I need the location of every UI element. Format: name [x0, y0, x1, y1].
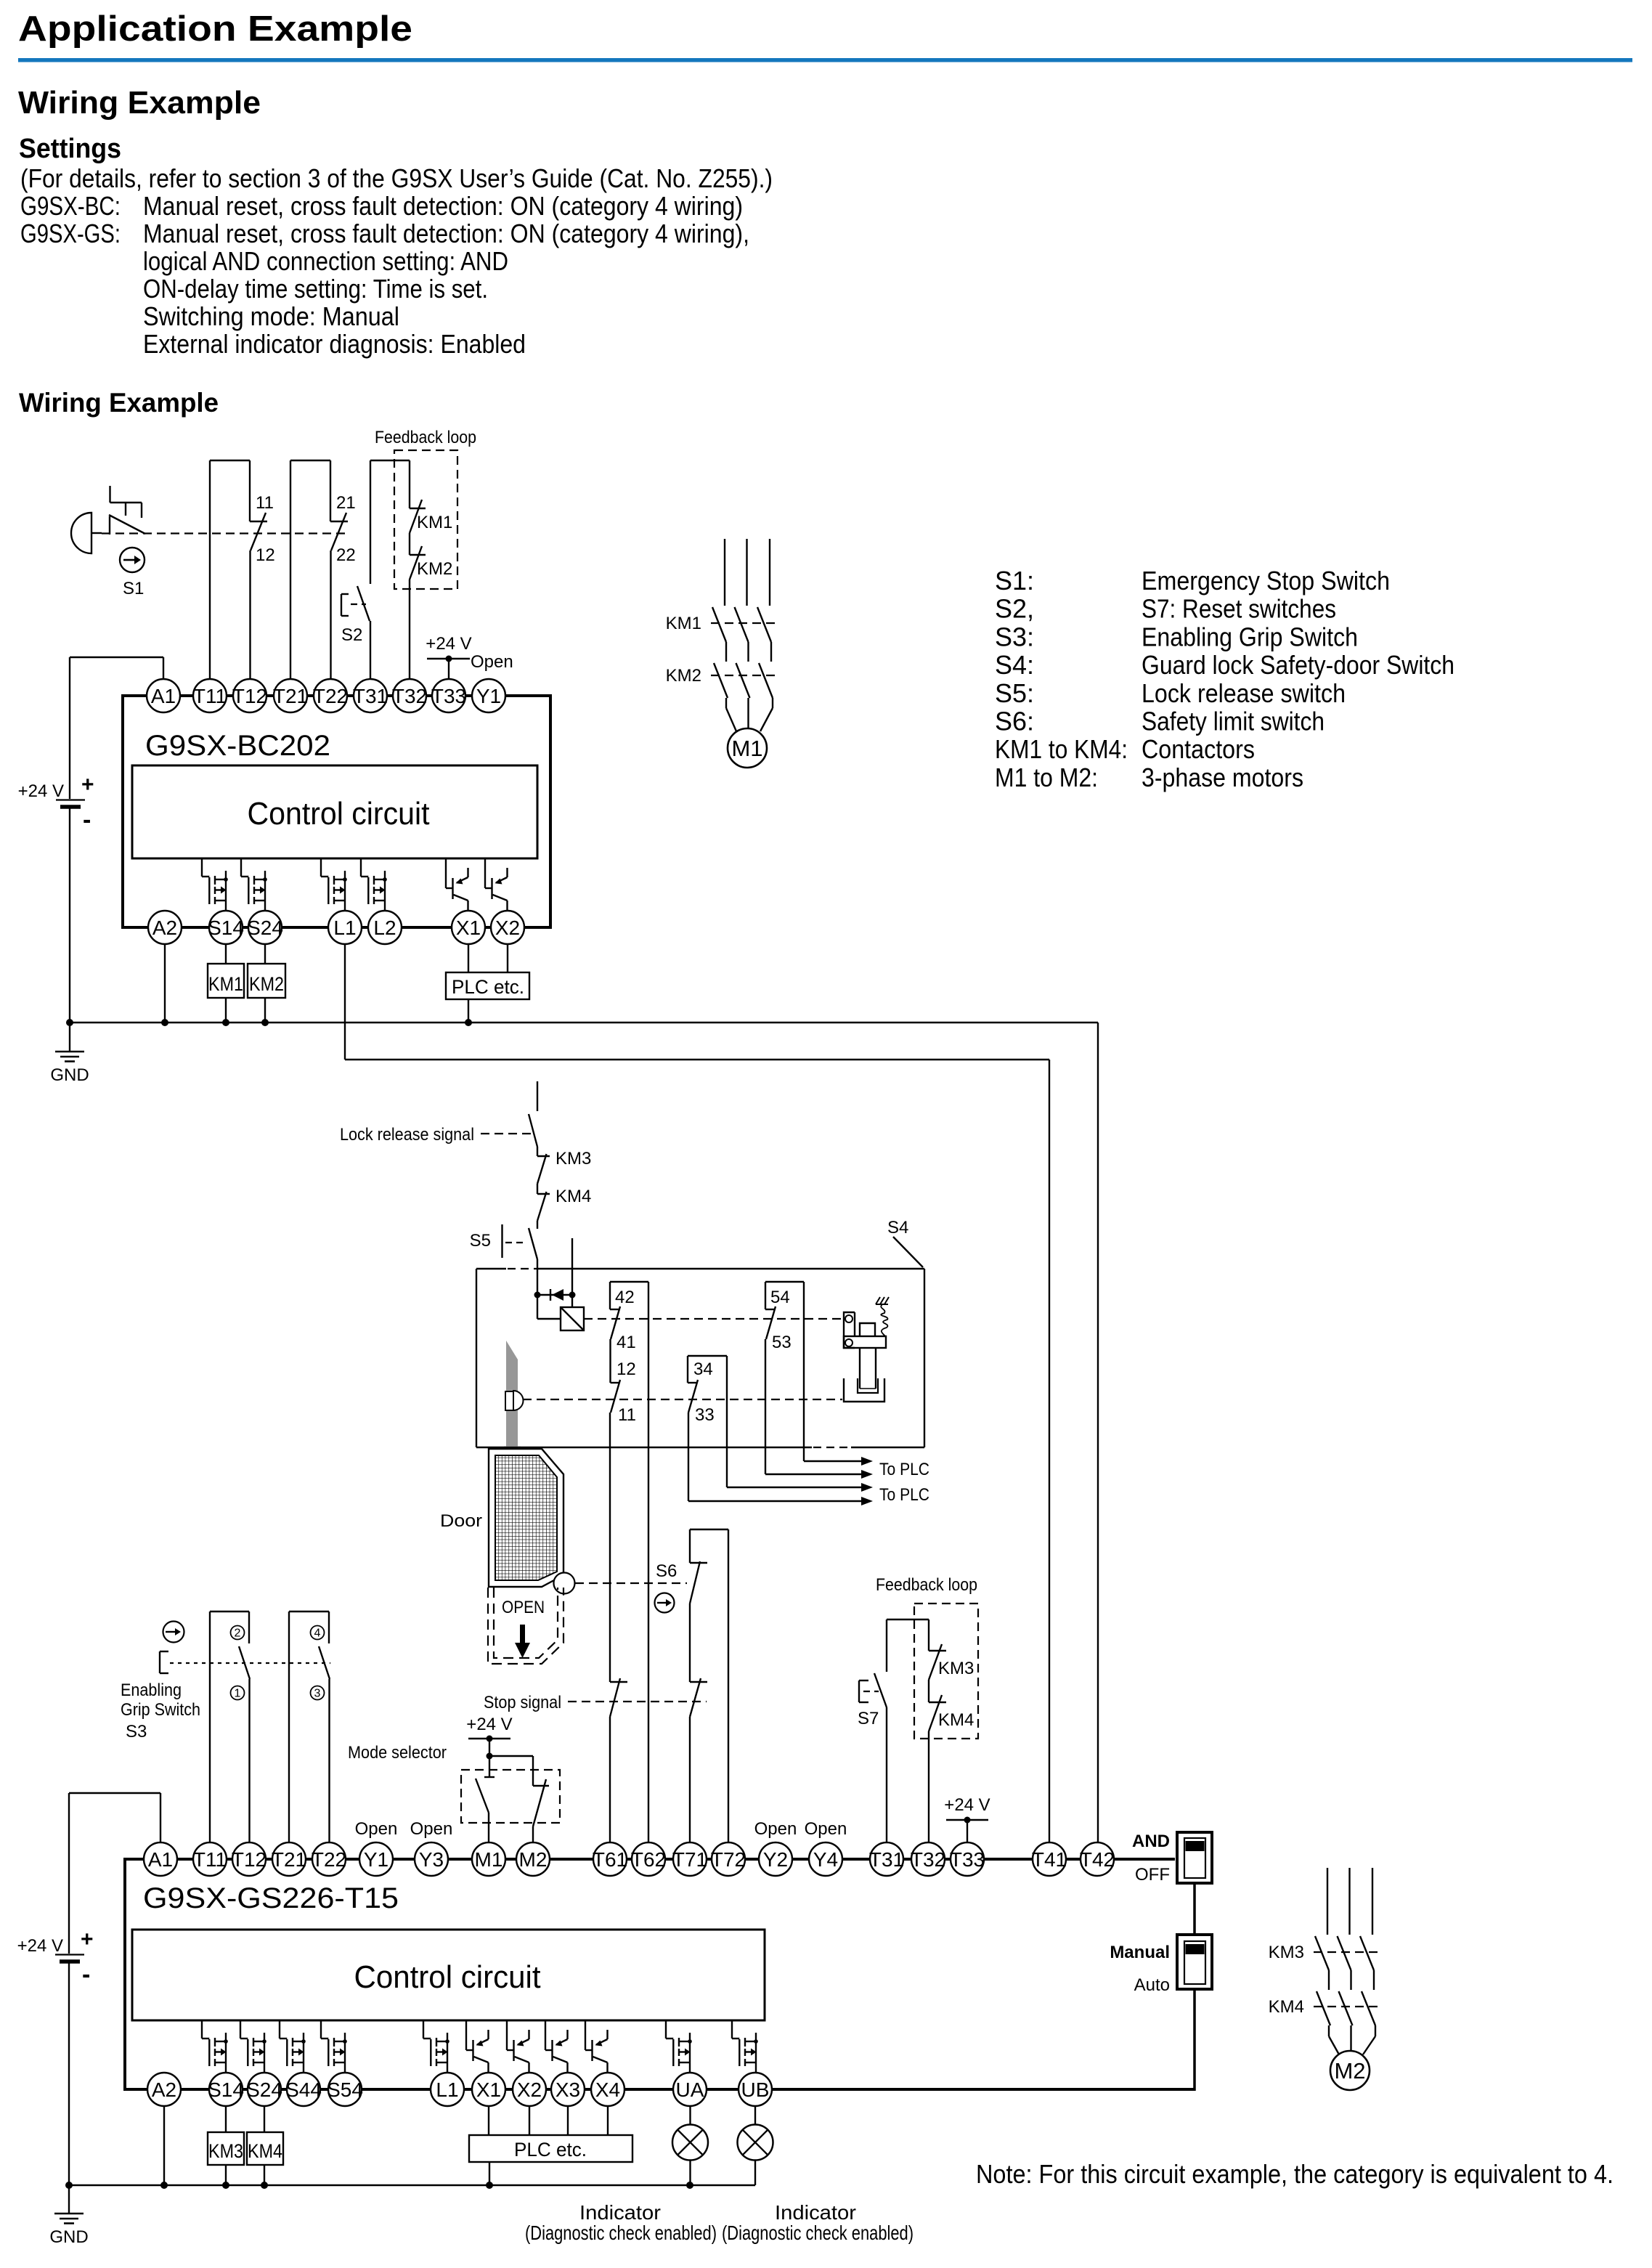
battery +24V upper [18, 657, 94, 1023]
svg-text:S4: S4 [887, 1218, 908, 1237]
ground symbol lower [49, 2185, 88, 2247]
junction dots on GND bus [66, 1019, 73, 1026]
wire S24 to KM4 coil [264, 2106, 265, 2132]
svg-text:Y1: Y1 [364, 1848, 388, 1871]
output transistor above X1 lower [466, 2020, 489, 2073]
terminal T42 lower [1081, 1842, 1114, 1876]
unit outline G9SX-GS226-T15 [125, 1858, 1195, 2091]
terminal T32 [393, 679, 426, 712]
svg-text:Feedback loop: Feedback loop [876, 1575, 977, 1595]
svg-text:Y4: Y4 [813, 1848, 838, 1871]
svg-text:Open: Open [471, 652, 513, 672]
svg-text:KM4: KM4 [248, 2140, 282, 2162]
svg-text:T21: T21 [273, 685, 308, 707]
terminal T41 lower [1033, 1842, 1066, 1876]
svg-text:T42: T42 [1080, 1848, 1115, 1871]
terminal L2 [368, 911, 402, 944]
terminal UA lower bottom [673, 2073, 707, 2106]
svg-text:T31: T31 [869, 1848, 904, 1871]
svg-text:L2: L2 [373, 916, 396, 939]
wire X1 to PLC [468, 944, 469, 972]
control circuit box upper [132, 765, 537, 858]
logical AND setting switch [1132, 1832, 1212, 1885]
enabling grip switch S3 arrow [163, 1622, 184, 1643]
wire mode switch to bus [1193, 1989, 1196, 2091]
wire KM1 to bus [225, 998, 227, 1023]
To PLC arrow from 53 [804, 1282, 873, 1466]
svg-text:S3:: S3: [995, 622, 1034, 651]
wire PLC to bus [468, 999, 469, 1023]
svg-text:T22: T22 [313, 685, 348, 707]
lock-monitor dashed line [584, 1318, 842, 1320]
wire A2 to GND bus [164, 944, 166, 1023]
svg-text:Control circuit: Control circuit [354, 1959, 541, 1995]
terminal Y3 lower [415, 1842, 448, 1876]
svg-text:Mode selector: Mode selector [348, 1743, 447, 1763]
contact S6 on T71 wire [690, 1529, 707, 1682]
KM4 coil box [247, 2132, 283, 2165]
To PLC arrow from 54 [765, 1339, 873, 1479]
svg-text:KM1: KM1 [208, 973, 243, 995]
svg-text:12: 12 [617, 1359, 636, 1379]
svg-text:KM1 to KM4:: KM1 to KM4: [995, 734, 1128, 764]
mode contact to M1 [476, 1756, 495, 1842]
output MOSFET above S44 lower [280, 2020, 306, 2073]
svg-text:To PLC: To PLC [879, 1460, 929, 1479]
svg-text:S2: S2 [341, 625, 362, 645]
output transistor above X1 upper [446, 858, 468, 911]
contact KM2 in feedback loop [410, 533, 452, 679]
terminal T31 lower [870, 1842, 903, 1876]
terminal T11 lower [193, 1842, 227, 1876]
S1 reset-direction arrow [120, 548, 145, 572]
door latch roller [505, 1391, 524, 1410]
svg-text:T21: T21 [272, 1848, 306, 1871]
svg-text:T11: T11 [193, 685, 227, 707]
auxiliary contact KM3 [537, 1147, 591, 1184]
svg-text:Wiring Example: Wiring Example [18, 85, 261, 121]
contact KM3 in lower feedback loop [929, 1619, 974, 1680]
terminal S24 [248, 911, 282, 944]
indicator lamp UB [738, 2125, 773, 2161]
svg-text:11: 11 [618, 1405, 636, 1425]
mode contact to M2 [533, 1756, 549, 1842]
wire UB lamp to bus [754, 2161, 756, 2186]
auxiliary contact KM4 [537, 1184, 591, 1221]
terminal T22 lower [312, 1842, 346, 1876]
svg-text:GND: GND [49, 2227, 88, 2247]
svg-text:Grip Switch: Grip Switch [121, 1700, 200, 1720]
output MOSFET above L1 lower [423, 2020, 449, 2073]
svg-text:X4: X4 [595, 2078, 620, 2101]
legend [995, 566, 1454, 792]
svg-text:Indicator: Indicator [579, 2201, 661, 2224]
svg-text:T33: T33 [950, 1848, 985, 1871]
svg-text:S1:: S1: [995, 566, 1034, 596]
door-monitor dashed line [523, 1399, 842, 1400]
wire S24 to KM2 coil [264, 944, 266, 964]
PLC box upper [446, 972, 529, 999]
contact KM1 in feedback loop [410, 460, 452, 533]
svg-text:T32: T32 [392, 685, 427, 707]
svg-text:KM1: KM1 [666, 614, 701, 633]
svg-text:Y1: Y1 [476, 685, 501, 707]
terminal T61 lower [593, 1842, 627, 1876]
svg-text:Open: Open [410, 1819, 453, 1839]
svg-text:2: 2 [235, 1627, 241, 1640]
svg-text:+24 V: +24 V [466, 1715, 512, 1734]
mode selector [348, 1715, 560, 1823]
svg-text:S4:: S4: [995, 650, 1034, 680]
terminal T22 [314, 679, 347, 712]
output MOSFET above UB lower [732, 2020, 758, 2073]
svg-text:Manual reset, cross fault dete: Manual reset, cross fault detection: ON … [143, 219, 749, 248]
svg-text:Note: For this circuit example: Note: For this circuit example, the cate… [976, 2159, 1614, 2189]
S3 actuator bracket [160, 1651, 168, 1673]
lock release switch S5 [470, 1221, 537, 1269]
svg-text:4: 4 [314, 1627, 321, 1640]
terminal X3 lower bottom [551, 2073, 585, 2106]
motor M1 [728, 728, 767, 768]
svg-text:KM3: KM3 [1269, 1943, 1304, 1962]
svg-text:1: 1 [235, 1688, 241, 1700]
terminal T12 [233, 679, 266, 712]
svg-text:12: 12 [256, 545, 275, 565]
contactor KM3/KM4 power contacts to M2 [1314, 1868, 1379, 2054]
svg-text:L1: L1 [333, 916, 356, 939]
svg-text:GND: GND [50, 1065, 89, 1085]
KM3 coil box [208, 2132, 244, 2165]
To PLC arrow from 33 [727, 1356, 873, 1492]
terminal T11 [193, 679, 227, 712]
wire T71 T72 loop top [690, 1529, 728, 1530]
door open roller [554, 1573, 575, 1594]
svg-text:33: 33 [695, 1405, 715, 1425]
wire UB to indicator [754, 2106, 756, 2125]
svg-text:PLC etc.: PLC etc. [514, 2139, 587, 2161]
svg-text:Switching mode: Manual: Switching mode: Manual [143, 301, 399, 331]
terminal M2 lower [516, 1842, 550, 1876]
svg-text:A1: A1 [151, 685, 176, 707]
wire A1 supply upper [70, 657, 163, 658]
svg-text:T22: T22 [312, 1848, 346, 1871]
svg-text:Settings: Settings [19, 134, 121, 164]
KM2 coil box [248, 964, 285, 998]
wire UA lamp to bus [689, 2161, 691, 2186]
svg-text:KM2: KM2 [666, 666, 701, 686]
terminal M1 lower [472, 1842, 505, 1876]
emergency stop switch S1 [71, 486, 145, 553]
svg-text:A1: A1 [148, 1848, 173, 1871]
svg-text:Wiring Example: Wiring Example [19, 388, 219, 418]
contact 12-11 of S4 [611, 1359, 636, 1425]
svg-text:S54: S54 [327, 2078, 363, 2101]
svg-text:KM1: KM1 [417, 513, 452, 532]
svg-text:G9SX-GS:: G9SX-GS: [20, 219, 121, 248]
svg-text:41: 41 [617, 1333, 636, 1352]
wire S14 to KM3 coil [225, 2106, 227, 2132]
contactor KM1/KM2 power contacts to M1 [711, 539, 776, 731]
svg-text:+24 V: +24 V [17, 1936, 63, 1956]
wire KM4 coil to bus [264, 2165, 265, 2185]
svg-text:Open: Open [805, 1819, 847, 1839]
svg-text:Y2: Y2 [763, 1848, 788, 1871]
svg-text:S6: S6 [656, 1561, 677, 1581]
terminal S14 lower bottom [209, 2073, 243, 2106]
junction dots on lower GND bus [65, 2182, 73, 2189]
svg-text:L1: L1 [436, 2078, 458, 2101]
svg-text:T41: T41 [1032, 1848, 1067, 1871]
svg-text:Auto: Auto [1134, 1975, 1170, 1995]
svg-text:G9SX-BC202: G9SX-BC202 [145, 730, 330, 762]
svg-text:Guard lock Safety-door Switch: Guard lock Safety-door Switch [1142, 650, 1454, 680]
svg-text:(Diagnostic check enabled): (Diagnostic check enabled) [525, 2222, 717, 2244]
svg-text:S7: Reset switches: S7: Reset switches [1142, 594, 1336, 624]
solenoid feed with diode [534, 1238, 576, 1307]
output transistor above X2 lower [507, 2020, 529, 2073]
S3 dotted actuator line [170, 1662, 330, 1664]
svg-text:Application Example: Application Example [18, 9, 412, 49]
svg-text:+24 V: +24 V [426, 634, 471, 654]
svg-text:S24: S24 [246, 2078, 282, 2101]
terminal T33 [432, 679, 465, 712]
svg-text:T33: T33 [431, 685, 466, 707]
stop signal dashed line [484, 1693, 707, 1712]
blue rule [18, 58, 1632, 62]
wire A2 lower [163, 2106, 165, 2185]
contact 21-22 on T22 wire [330, 460, 356, 679]
contact 11-12 on T12 wire [250, 460, 275, 679]
GND bus upper [70, 1022, 1098, 1023]
svg-text:Indicator: Indicator [775, 2201, 856, 2224]
switching mode switch [1110, 1935, 1212, 1995]
terminal A2 lower bottom [147, 2073, 181, 2106]
contact 54-53 of S4 [765, 1282, 804, 1352]
svg-text:X2: X2 [517, 2078, 542, 2101]
terminal T72 lower [712, 1842, 745, 1876]
svg-text:G9SX-BC:: G9SX-BC: [20, 191, 121, 221]
svg-text:-: - [83, 806, 91, 834]
KM1 coil box [208, 964, 244, 998]
svg-text:Enabling: Enabling [121, 1680, 182, 1700]
wire T31 upper [370, 460, 371, 584]
guard lock safety-door switch S4 box [476, 1269, 924, 1447]
contact 34-33 of S4 [688, 1356, 727, 1425]
terminal A1 [147, 679, 180, 712]
+24V tap over T33 [426, 634, 471, 679]
terminal L1 [328, 911, 362, 944]
svg-text:S14: S14 [208, 916, 244, 939]
svg-text:Y3: Y3 [419, 1848, 444, 1871]
svg-text:AND: AND [1132, 1832, 1170, 1851]
svg-text:Contactors: Contactors [1142, 734, 1255, 764]
svg-text:-: - [82, 1961, 90, 1988]
svg-text:T11: T11 [193, 1848, 227, 1871]
output MOSFET above S24 upper [241, 858, 267, 911]
svg-text:G9SX-GS226-T15: G9SX-GS226-T15 [143, 1882, 399, 1914]
control circuit box lower [132, 1930, 765, 2020]
svg-text:+24 V: +24 V [944, 1795, 990, 1815]
wire between switches [1193, 1883, 1196, 1935]
terminal Y1 [472, 679, 505, 712]
output transistor above X2 upper [485, 858, 508, 911]
terminal T21 lower [272, 1842, 306, 1876]
svg-text:M1: M1 [475, 1848, 503, 1871]
terminal X4 lower bottom [591, 2073, 624, 2106]
svg-text:(Diagnostic check enabled): (Diagnostic check enabled) [722, 2222, 914, 2244]
wire 42 to T62 [648, 1282, 649, 1842]
label S4 with leader [887, 1218, 923, 1267]
svg-text:Enabling Grip Switch: Enabling Grip Switch [1142, 622, 1358, 651]
svg-text:Feedback loop: Feedback loop [375, 428, 476, 447]
output MOSFET above UA lower [666, 2020, 692, 2073]
wire T11 loop [209, 460, 211, 679]
lock mechanism [844, 1297, 889, 1402]
svg-text:A2: A2 [152, 916, 177, 939]
svg-text:PLC etc.: PLC etc. [452, 976, 524, 998]
contact 42-41 of S4 [610, 1282, 648, 1383]
svg-text:Manual: Manual [1110, 1943, 1170, 1962]
motor M2 [1330, 2051, 1370, 2090]
+24V tap over T33 lower [944, 1795, 990, 1842]
terminal Y1 lower [359, 1842, 393, 1876]
PLC box lower [469, 2135, 632, 2162]
svg-text:S44: S44 [285, 2078, 322, 2101]
terminal X2 [491, 911, 524, 944]
svg-text:T12: T12 [232, 685, 267, 707]
wire S14 to KM1 coil [225, 944, 227, 964]
terminal L1 lower bottom [431, 2073, 464, 2106]
reset switch S2 [341, 586, 370, 645]
svg-text:ON-delay time setting: Time is: ON-delay time setting: Time is set. [143, 274, 488, 304]
svg-text:+24 V: +24 V [18, 781, 64, 801]
feedback loop dashed box lower [914, 1604, 978, 1739]
svg-text:Emergency Stop Switch: Emergency Stop Switch [1142, 566, 1390, 596]
door panel [489, 1449, 563, 1587]
svg-text:M1 to M2:: M1 to M2: [995, 763, 1098, 792]
grip switch contact pair 4-3 [289, 1611, 330, 1842]
contact KM4 in lower feedback loop [929, 1680, 974, 1842]
output MOSFET above S14 lower [202, 2020, 228, 2073]
svg-text:S5: S5 [470, 1231, 491, 1251]
terminal A1 lower [144, 1842, 177, 1876]
svg-text:34: 34 [693, 1359, 713, 1379]
svg-text:S14: S14 [208, 2078, 244, 2101]
svg-text:S6:: S6: [995, 707, 1034, 736]
wires X1-X4 to PLC lower [488, 2106, 489, 2135]
door latch bar [504, 1341, 521, 1449]
lock release signal contact [340, 1081, 537, 1147]
terminal S24 lower bottom [248, 2073, 281, 2106]
svg-text:KM2: KM2 [417, 559, 452, 579]
svg-text:S1: S1 [123, 579, 144, 598]
svg-text:Control circuit: Control circuit [248, 796, 430, 832]
wire T31 lower [886, 1707, 887, 1842]
svg-text:3: 3 [314, 1688, 321, 1700]
terminal UB lower bottom [738, 2073, 772, 2106]
svg-text:Lock release switch: Lock release switch [1142, 678, 1346, 708]
svg-text:11: 11 [256, 493, 274, 513]
dashed actuator line from S1 [102, 532, 346, 534]
svg-text:54: 54 [770, 1288, 790, 1307]
output MOSFET above S24 lower [240, 2020, 266, 2073]
svg-text:Open: Open [754, 1819, 797, 1839]
wire X2 to PLC [507, 944, 508, 972]
svg-text:(For details, refer to section: (For details, refer to section 3 of the … [20, 163, 773, 193]
terminal T33 lower [951, 1842, 984, 1876]
svg-text:M1: M1 [731, 736, 762, 761]
wire 11 to T61 [609, 1413, 611, 1682]
svg-text:M2: M2 [519, 1848, 548, 1871]
terminal T12 lower [232, 1842, 266, 1876]
svg-text:T61: T61 [593, 1848, 627, 1871]
terminal T31 [354, 679, 387, 712]
grip switch contact pair 2-1 [210, 1611, 250, 1842]
feedback loop dashed box upper [394, 450, 457, 589]
terminal X2 lower bottom [513, 2073, 546, 2106]
svg-text:T71: T71 [672, 1848, 707, 1871]
S6 actuation arrow [655, 1593, 675, 1613]
svg-text:KM4: KM4 [938, 1710, 974, 1730]
wire A1 supply lower [69, 1792, 160, 1794]
terminal A2 [148, 911, 182, 944]
svg-text:OPEN: OPEN [502, 1598, 545, 1617]
svg-text:To PLC: To PLC [879, 1485, 929, 1505]
svg-text:KM4: KM4 [556, 1187, 591, 1206]
output MOSFET above L1 upper [321, 858, 347, 911]
svg-text:T72: T72 [711, 1848, 746, 1871]
terminal T32 lower [911, 1842, 945, 1876]
stop contact on T61 wire [610, 1678, 627, 1842]
svg-text:T12: T12 [232, 1848, 266, 1871]
safety limit switch S6 dashed line [575, 1582, 687, 1584]
svg-text:T62: T62 [631, 1848, 666, 1871]
svg-text:M2: M2 [1334, 2058, 1365, 2084]
svg-text:logical AND connection setting: logical AND connection setting: AND [143, 246, 508, 276]
wire KM3 coil to bus [225, 2165, 227, 2185]
svg-text:X1: X1 [456, 916, 481, 939]
svg-text:X2: X2 [495, 916, 520, 939]
svg-text:Open: Open [355, 1819, 398, 1839]
wire L1 to T41 [344, 944, 346, 1060]
wire T21 loop [290, 460, 291, 679]
svg-text:KM3: KM3 [208, 2140, 243, 2162]
wire KM2 to bus [264, 998, 266, 1023]
svg-text:S2,: S2, [995, 594, 1034, 624]
reset switch S7 [858, 1673, 887, 1728]
svg-text:S24: S24 [247, 916, 283, 939]
svg-text:T31: T31 [353, 685, 388, 707]
wire UA to indicator [689, 2106, 691, 2125]
svg-text:S3: S3 [126, 1722, 147, 1741]
svg-text:OFF: OFF [1135, 1865, 1170, 1885]
svg-text:3-phase motors: 3-phase motors [1142, 763, 1303, 792]
svg-text:KM3: KM3 [556, 1149, 591, 1168]
door open arrow [515, 1625, 530, 1658]
terminal T71 lower [673, 1842, 707, 1876]
terminal Y4 lower [809, 1842, 842, 1876]
OPEN dashed outline [488, 1588, 563, 1664]
terminal S44 lower bottom [287, 2073, 320, 2106]
svg-text:KM3: KM3 [938, 1659, 974, 1678]
svg-text:S5:: S5: [995, 678, 1034, 708]
stop contact on T71 wire [690, 1678, 707, 1842]
svg-text:+: + [81, 1927, 94, 1951]
output MOSFET above S14 upper [202, 858, 228, 911]
indicator lamp UA [672, 2125, 708, 2161]
svg-text:X3: X3 [556, 2078, 580, 2101]
svg-text:53: 53 [772, 1333, 792, 1352]
